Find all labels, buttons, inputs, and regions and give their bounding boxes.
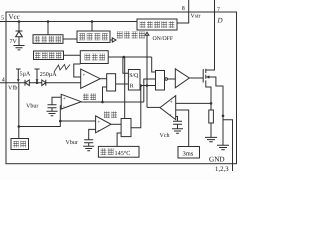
wire reference drop [91,22,93,32]
wire overload plus input [60,120,95,122]
text reset 复位 [13,141,19,148]
transistor MOSFET channel segments [205,69,207,85]
wire resistor to ground [210,123,212,137]
svg-text:+: + [83,74,86,79]
node bootstrap branch [101,101,104,104]
zener diode 7V [16,31,23,37]
text HV regulator 高压调节器 [140,21,146,28]
text jitter 频率抖动 [35,52,40,58]
node sense resistor top [210,102,213,105]
svg-text:4: 4 [2,78,5,84]
block thermal shutdown 过热145C [98,146,139,157]
wire Vch minus to 3ms [176,110,189,147]
svg-text:ON/OFF: ON/OFF [153,36,174,42]
wire AND to inverter [168,78,176,80]
wire source to ground pin branch [223,120,233,171]
capacitor Vbur2 [84,140,93,143]
svg-text:Vch: Vch [160,132,170,139]
flip-flop latch S/Q R [128,70,140,91]
wire pulse box to latch R [116,83,129,85]
block pulse collector [121,119,131,137]
text overload 过载 [104,111,110,118]
arrow MOSFET body [206,75,210,78]
block reference voltage 参考电压 [77,31,110,43]
svg-text:145°C: 145°C [115,150,131,157]
svg-text:Vbur: Vbur [26,102,38,109]
svg-text:7V: 7V [10,39,18,45]
wire UVLO to reference [63,38,77,40]
wire current sense line [176,102,211,104]
diode left clamp [25,80,29,86]
svg-text:1,2,3: 1,2,3 [215,166,229,173]
wire reference to internal-circuit arrow [110,39,112,41]
node ON/OFF join [146,84,149,87]
arrowhead internal circuit [112,38,116,42]
arrow 5uA [17,79,20,82]
wire Vch cap to ground [177,124,179,129]
node Vcc-zener [18,20,21,23]
ground Vbur2 [83,146,94,150]
wire oscillator clock line [108,56,152,58]
wire oscillator ramp output [74,64,81,77]
wire bootstrap branch to pulse box [103,87,107,102]
pin 5 Vcc stub [0,21,6,23]
wire clock to pulse-collector box [124,57,126,119]
text thermal 过热 [101,148,107,155]
pin 4 Vfb line [0,82,81,84]
svg-text:Vcc: Vcc [9,13,20,21]
block high-voltage regulator 高压调节器 [137,19,177,30]
svg-text:+: + [98,120,101,125]
capacitor Vch [173,121,182,124]
op-amp overload comparator 过载 [96,116,111,133]
svg-text:Vstr: Vstr [191,13,201,19]
ground Vch cap [172,129,183,133]
outer IC boundary box [6,12,237,164]
wire clock jog into AND gate [152,57,156,72]
node latch Q join [140,84,143,87]
node Vcc-reference [91,20,94,23]
block oscillator 振荡器 [80,51,108,64]
text oscillator 振荡器 [85,54,91,61]
block PWM pulse box [107,74,116,91]
svg-text:+: + [170,101,173,106]
node Vfb diode center [36,81,39,84]
op-amp bootstrap comparator 自举 [61,94,81,109]
arrowhead ON/OFF into regulator [145,32,149,35]
wire latch Q low line to AND [140,85,156,87]
wire clock to latch S input [123,57,128,73]
node reset branch [18,125,21,128]
wire Vch comparator output [147,106,160,108]
inverter driver triangle [175,69,189,88]
wire bootstrap output [81,101,144,103]
wire PWM comparator output [100,78,107,80]
wire feedback sense drop to reset [18,83,20,139]
svg-text:3ms: 3ms [183,151,194,158]
diode right clamp [42,80,46,86]
wire thermal riser [117,133,121,146]
wire Vch cap branch [176,117,178,122]
block UVLO 欠压锁存 [33,35,63,44]
svg-text:Vbur: Vbur [66,139,78,146]
wire jitter to oscillator [64,54,81,56]
wire Vbur1 cap to ground [51,108,53,112]
svg-text:D: D [217,17,223,25]
wire Vbur2 cap to ground [88,143,90,147]
ground zener [14,46,25,50]
wire regulator to Vstr pin 8 [177,0,189,23]
node overload plus branch [59,120,62,123]
ground right [217,145,229,149]
op-amp Vch comparator [160,96,176,120]
wire gate drive [189,77,203,79]
wire bootstrap plus input [52,97,61,105]
svg-text:+: + [63,97,66,102]
wire bootstrap riser to AND mid input [144,79,156,102]
block reset 复位 [11,139,29,150]
wire MOSFET body tie [209,77,224,145]
wire MOSFET drain to pin 7 [206,0,215,70]
text UVLO 欠压锁存 [35,36,40,42]
arrow 250uA [36,79,39,82]
svg-text:R: R [130,84,134,90]
op-amp PWM comparator [81,69,101,88]
node clock branch [123,56,126,59]
sawtooth waveform symbol [54,65,70,73]
text reference 参考电压 [79,33,85,40]
svg-text:250µA: 250µA [40,72,57,78]
ground Vbur1 [47,111,58,115]
transistor MOSFET gate bar [202,69,204,83]
wire Vcc rail [6,21,137,23]
svg-text:S/Q: S/Q [129,73,139,79]
svg-text:5: 5 [1,16,4,22]
wire bootstrap minus net [19,106,61,127]
current source 5uA [16,69,21,79]
wire UVLO drop [47,22,49,35]
block frequency jitter 频率抖动 [34,51,64,60]
wire ON/OFF vertical [146,35,148,107]
svg-text:5µA: 5µA [20,72,31,78]
block 3ms timer [178,147,200,159]
capacitor Vbur1 [48,105,57,108]
wire overload output [111,123,121,125]
text bootstrap 自举 [83,93,89,100]
logic AND gate box [156,71,165,91]
current source 250uA [34,69,39,79]
resistor sense [209,110,214,123]
wire overload minus to Vbur cap [89,129,96,139]
wire zener branch [16,22,23,46]
wire collector box output riser [131,86,141,128]
svg-text:GND: GND [209,155,225,163]
text internal circuit 内部电路 [117,31,123,38]
bubble AND output [165,78,168,81]
wire MOSFET source hook [206,85,211,110]
node Vcc-UVLO [47,20,50,23]
node source ground [222,115,225,118]
svg-text:8: 8 [182,6,185,12]
svg-text:7: 7 [217,7,220,13]
svg-text:Vfb: Vfb [8,85,17,92]
ground sense resistor [205,137,217,141]
